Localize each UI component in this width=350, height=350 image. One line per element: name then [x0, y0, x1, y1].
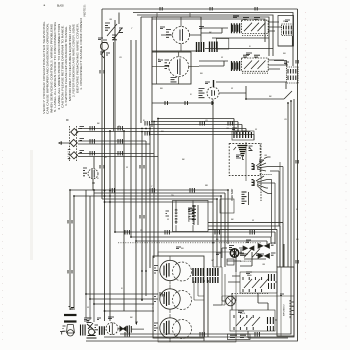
- wire S1S2 links: [205, 38, 273, 49]
- right tall box inner: [280, 267, 282, 336]
- wire clock to switch lower: [199, 61, 228, 66]
- bake switch right comb: [269, 274, 275, 289]
- svg-text:VERIFY PROPER OPERATION AFTER: VERIFY PROPER OPERATION AFTER SERVICING.: [42, 21, 46, 114]
- convection motor M2: [100, 322, 145, 335]
- wire right edge outer: [86, 9, 298, 341]
- wire top bus 2: [133, 13, 293, 67]
- surface connector CN5: [208, 268, 218, 283]
- wire right bundle b: [120, 101, 291, 334]
- svg-text:BAKE: BAKE: [247, 274, 253, 277]
- small box left of band: [220, 199, 234, 213]
- left edge smudge: [30, 150, 33, 260]
- wire surface links: [194, 281, 204, 300]
- surface switch S2: [232, 55, 269, 73]
- wire right bundle c: [287, 103, 289, 267]
- surface connector CN4: [193, 268, 203, 283]
- wire band H2 c: [102, 199, 217, 267]
- wire bundle v146: [145, 141, 147, 296]
- door lock coils K1 K2: [166, 201, 209, 232]
- wire bake to broil: [232, 293, 268, 310]
- relay connector P1: [278, 16, 294, 47]
- wire surface right: [213, 267, 225, 305]
- svg-text:NOTES:: NOTES:: [83, 4, 87, 16]
- wire top bus outer: [102, 8, 298, 10]
- svg-text:CAN CAUSE IMPROPER AND DANGERO: CAN CAUSE IMPROPER AND DANGEROUS OPERATI…: [46, 23, 50, 114]
- fan motor M1: [152, 80, 219, 105]
- wire CN2 to bake: [236, 252, 252, 272]
- wire label ticks bands1: [90, 121, 232, 156]
- dotted column left: [2, 150, 4, 345]
- latch dotted wire: [232, 293, 268, 295]
- clock box lower: [152, 52, 191, 84]
- wire left harness v102: [101, 9, 103, 199]
- surface unit LF: [154, 285, 192, 313]
- svg-text:2. REFER REMOVING AND WIRE COV: 2. REFER REMOVING AND WIRE COVER. SOME: [72, 24, 76, 97]
- wire top bus 5: [152, 19, 265, 42]
- svg-text:DOOR LOCK: DOOR LOCK: [240, 261, 252, 263]
- wire band H3 c: [208, 229, 277, 267]
- wire band H1 c: [150, 125, 242, 133]
- broil switch S7: [230, 310, 275, 331]
- wire right bundle a: [104, 99, 294, 337]
- wire CN2 label: [240, 261, 252, 263]
- oven control connector CN1: [232, 131, 254, 140]
- wire code labels: [87, 19, 299, 319]
- relay connector P2: [274, 61, 298, 84]
- latch circle: [226, 296, 236, 306]
- wire v213 center: [212, 103, 214, 267]
- wire clock to switch upper: [201, 28, 228, 33]
- connector P4: [210, 39, 229, 53]
- surface switch S1: [232, 17, 269, 35]
- wire S3 S4 drops: [246, 142, 280, 267]
- connector CN3: [189, 205, 199, 225]
- wire left harness v136: [135, 40, 137, 324]
- wire left harness v131: [130, 40, 132, 237]
- svg-text:BLACK: BLACK: [57, 5, 64, 8]
- timer motor B2: [152, 52, 199, 84]
- wire junction dots: [69, 98, 292, 312]
- right tall box: [277, 267, 294, 336]
- wire fan upper right: [216, 82, 286, 89]
- svg-text:WP OVEN LT: WP OVEN LT: [284, 303, 286, 316]
- right vtext: [284, 303, 286, 316]
- wire left harness v105: [104, 50, 106, 321]
- wire band H3 e: [131, 237, 271, 244]
- wire band H3 f: [136, 241, 267, 244]
- wire band H2 b: [74, 196, 221, 267]
- wire bottom band: [213, 296, 294, 305]
- connector CN6: [242, 192, 249, 205]
- wire left loop down v74: [73, 196, 75, 310]
- wire bottom inner: [221, 258, 223, 341]
- wire drop v86: [86, 190, 154, 294]
- wire burner conn drop a: [203, 281, 205, 341]
- wire band H1 e: [150, 135, 254, 141]
- wire left harness v152: [151, 19, 153, 127]
- wire band H2 a: [70, 190, 228, 244]
- wire y311: [104, 310, 154, 312]
- wire terminal L2 pair: [78, 154, 158, 157]
- wire drop v90: [90, 196, 154, 299]
- svg-text:5. LABEL ALL WIRES PRIOR TO DI: 5. LABEL ALL WIRES PRIOR TO DISCONNECTIN…: [53, 22, 57, 112]
- wire top bus 3: [137, 15, 273, 56]
- dotted column right: [305, 12, 307, 340]
- wire terminal L1 pair: [78, 129, 250, 132]
- ground strap: [60, 307, 77, 336]
- wire sensor drop: [260, 143, 262, 201]
- bottom label box: [228, 334, 251, 340]
- clock motor B1: [161, 17, 201, 51]
- surface unit LR: [154, 314, 192, 342]
- wire S1 right leads: [268, 22, 282, 31]
- wire band H2 d: [105, 201, 214, 203]
- component label clusters: [84, 16, 290, 321]
- door switch S5: [81, 318, 99, 338]
- svg-text:WHEN SERVICING CONTROLS. WIRIN: WHEN SERVICING CONTROLS. WIRING PROBLEMS: [49, 24, 53, 113]
- svg-text:MOTOR ONLY TO FEATURES EQUIPPE: MOTOR ONLY TO FEATURES EQUIPPED 120V: [68, 25, 72, 101]
- surface unit RF: [154, 257, 192, 285]
- svg-text:3. SWITCH OR PLEASE RETURN DIA: 3. SWITCH OR PLEASE RETURN DIAGRAM TO RA…: [64, 26, 68, 106]
- wire bundle v142: [141, 132, 143, 301]
- bake switch S6: [228, 272, 277, 293]
- oven label text: [232, 188, 234, 201]
- wire top bus 4: [141, 17, 269, 56]
- connector P3: [197, 27, 205, 53]
- wire left loop down v70: [69, 190, 71, 310]
- svg-text:BEFORE REMOVING WIRE COVER.: BEFORE REMOVING WIRE COVER.: [75, 23, 79, 93]
- wire left harness v141: [140, 17, 142, 123]
- door lock motor and switch cluster: [222, 240, 276, 265]
- wire drops into door switch: [86, 294, 94, 322]
- right dashed marker: [290, 300, 294, 319]
- wire drop v94: [94, 190, 154, 304]
- wire S3 S4 corner wires: [272, 167, 283, 238]
- latch circle x: [228, 298, 234, 304]
- wire S2 right leads: [268, 60, 288, 69]
- wire right bottom links: [222, 282, 277, 320]
- wire fan to right: [219, 86, 292, 99]
- dotted column far right: [345, 40, 347, 330]
- wire terminal N pair: [78, 141, 150, 144]
- wire bottom link: [248, 331, 288, 338]
- clock box upper: [152, 17, 201, 51]
- surface box inner: [158, 252, 236, 342]
- wire band H3 dotted: [118, 242, 262, 244]
- wire band H3 b: [208, 226, 280, 267]
- oven lamp DS1: [83, 157, 98, 191]
- sheet mark a: [44, 3, 65, 8]
- oven sensor RT1: [229, 144, 260, 176]
- wire label ticks verticals: [68, 7, 298, 274]
- wire burner conn drop b: [207, 281, 209, 337]
- wire left harness v124: [123, 131, 125, 311]
- wire band H3 d: [115, 232, 275, 244]
- fuse F1 cluster: [100, 13, 123, 132]
- wire left harness v115: [114, 20, 116, 232]
- wire left harness v110: [109, 131, 111, 321]
- broil switch right comb: [268, 317, 274, 331]
- svg-text:CAUTION: PLEASE RETURN DIAGRAM: CAUTION: PLEASE RETURN DIAGRAM TO RANGE.: [61, 25, 65, 108]
- svg-text:4. LABEL ALL WIRES PRIOR TO DI: 4. LABEL ALL WIRES PRIOR TO DISCONNECTIO…: [57, 24, 61, 110]
- wire band H1 b: [154, 122, 238, 133]
- wire band H3 a: [208, 223, 283, 267]
- oven light switch S3: [252, 157, 284, 171]
- wire label ticks bands2: [110, 188, 259, 337]
- surface box outer: [153, 256, 204, 338]
- power terminal block L1 N L2: [59, 120, 84, 161]
- wire right inner v284: [283, 244, 285, 267]
- wire bundle v154: [153, 122, 155, 259]
- wire band H2 b2: [94, 193, 225, 267]
- note text block: [42, 4, 87, 114]
- svg-text:1. DISCONNECT RANGE FROM POWER: 1. DISCONNECT RANGE FROM POWER: [79, 18, 83, 90]
- wire clock top leads: [157, 13, 191, 84]
- wire bundle v150: [149, 125, 151, 269]
- wire bundle v158: [157, 119, 159, 257]
- wire band H1 a: [158, 119, 234, 133]
- door latch switch S4: [252, 175, 276, 194]
- wire band H1 d: [246, 129, 250, 133]
